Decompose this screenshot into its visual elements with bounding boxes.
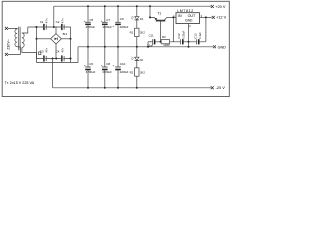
svg-text:2200uF: 2200uF xyxy=(120,25,129,29)
svg-text:C3: C3 xyxy=(40,49,44,53)
svg-text:2: 2 xyxy=(189,24,191,28)
wire AC top (snubber row 1) xyxy=(28,26,71,28)
wire mains top to primary xyxy=(8,27,17,30)
wire bridge left xyxy=(37,38,51,40)
wire riser to -rail xyxy=(52,59,54,88)
node dot AC2 xyxy=(70,38,72,40)
capacitor C7 branch xyxy=(104,6,106,47)
wire drop to regulator row xyxy=(150,6,154,17)
capacitor C3 xyxy=(43,55,45,61)
capacitor C8 branch xyxy=(104,47,106,88)
svg-text:T1: T1 xyxy=(157,11,161,15)
text labels xyxy=(5,4,227,90)
transformer TR1 secondary winding xyxy=(22,33,24,47)
wire drop IN to bypass row xyxy=(172,17,174,41)
svg-text:2K2: 2K2 xyxy=(140,31,145,35)
svg-text:R1: R1 xyxy=(130,31,134,35)
svg-text:C1: C1 xyxy=(40,20,44,24)
svg-text:IN: IN xyxy=(178,14,182,18)
svg-text:-20 V: -20 V xyxy=(216,85,226,90)
svg-text:4700uF: 4700uF xyxy=(86,70,96,74)
center tap square xyxy=(39,52,41,55)
capacitor C9 branch xyxy=(117,6,119,47)
svg-text:+: + xyxy=(101,19,103,23)
terminal X2 +20V xyxy=(211,5,214,8)
svg-text:4700uF: 4700uF xyxy=(102,25,112,29)
svg-text:+: + xyxy=(84,19,86,23)
wire AC bottom (snubber row 2) xyxy=(36,58,70,60)
border frame xyxy=(2,1,229,96)
svg-text:C13: C13 xyxy=(194,33,198,39)
wire bridge right xyxy=(61,38,70,40)
svg-text:R2: R2 xyxy=(130,70,134,74)
wire mains bottom to primary xyxy=(8,47,21,55)
svg-text:R3: R3 xyxy=(162,35,166,39)
node dot base xyxy=(160,41,162,43)
node dot + riser xyxy=(53,26,55,28)
svg-text:+12 V: +12 V xyxy=(216,15,227,20)
capacitor C1 xyxy=(43,24,45,30)
capacitor C6 branch xyxy=(87,47,89,88)
svg-text:2K2: 2K2 xyxy=(140,70,145,74)
terminal X1b mains bottom xyxy=(5,53,8,56)
svg-text:230V~: 230V~ xyxy=(7,39,11,50)
wire T1 to IC xyxy=(167,16,176,18)
svg-text:C5: C5 xyxy=(89,18,93,22)
capacitor C13 xyxy=(196,39,198,44)
svg-text:100R: 100R xyxy=(163,43,169,47)
svg-text:GND: GND xyxy=(218,46,227,50)
node dot regulator drop xyxy=(149,16,151,18)
transistor T1 xyxy=(154,17,167,20)
node dot - riser xyxy=(52,58,54,60)
svg-text:C12: C12 xyxy=(177,33,181,39)
svg-text:4700uF: 4700uF xyxy=(86,25,96,29)
svg-text:0.33uF: 0.33uF xyxy=(182,30,186,38)
terminal X3 +12V xyxy=(212,16,215,19)
capacitor C10 branch xyxy=(117,47,119,88)
svg-text:10uF: 10uF xyxy=(147,43,153,47)
svg-text:C9: C9 xyxy=(120,17,124,21)
svg-text:47n: 47n xyxy=(60,18,64,23)
capacitor C4 xyxy=(61,55,63,61)
resistor R2 xyxy=(135,68,139,76)
svg-text:C6: C6 xyxy=(89,62,93,66)
svg-text:C2: C2 xyxy=(56,20,60,24)
rail +20V xyxy=(54,5,211,7)
svg-text:47n: 47n xyxy=(45,18,49,23)
wire bridge top stub xyxy=(55,27,57,34)
svg-text:4700uF: 4700uF xyxy=(102,70,112,74)
svg-text:+: + xyxy=(112,24,114,28)
IC U1 LM7812 box xyxy=(176,13,200,24)
LED D1 xyxy=(136,6,138,47)
resistor R1 xyxy=(135,28,139,36)
rail -20V xyxy=(53,87,211,89)
node dots +rail xyxy=(87,5,151,7)
wire center link xyxy=(37,27,79,62)
node dot AC2/row2 xyxy=(70,58,72,60)
svg-text:D1: D1 xyxy=(140,17,144,21)
svg-text:Tr. 2x15 V 225 VA: Tr. 2x15 V 225 VA xyxy=(5,81,35,85)
svg-text:C7: C7 xyxy=(106,18,110,22)
svg-text:2200uF: 2200uF xyxy=(120,70,129,74)
svg-text:C10: C10 xyxy=(120,62,126,66)
wire secondary top lead xyxy=(22,27,28,33)
wire secondary bottom lead jog xyxy=(22,48,37,59)
node dots -rail xyxy=(87,87,138,89)
LED D2 xyxy=(136,47,138,88)
svg-text:+: + xyxy=(113,63,115,67)
wire OUT xyxy=(200,16,212,18)
wire riser C13 to OUT xyxy=(205,17,207,41)
wire AC2 vertical xyxy=(70,27,72,62)
rail GND xyxy=(78,46,213,48)
capacitor C5 branch xyxy=(87,6,89,47)
node dots GND rail xyxy=(87,46,190,48)
svg-text:+20 V: +20 V xyxy=(215,4,226,9)
svg-text:LM7812: LM7812 xyxy=(177,9,194,13)
node dot AC1 tap xyxy=(36,26,38,28)
svg-text:47n: 47n xyxy=(60,47,64,52)
transformer TR1 core xyxy=(19,27,20,50)
wire bypass row to GND rail xyxy=(147,42,149,47)
bridge rectifier Br1 diamond xyxy=(51,34,62,44)
capacitor C2 xyxy=(61,24,63,30)
svg-text:C8: C8 xyxy=(106,62,110,66)
svg-text:C4: C4 xyxy=(56,49,60,53)
svg-text:+: + xyxy=(84,64,86,68)
capacitor C12 xyxy=(180,39,182,44)
node dot IN xyxy=(172,16,174,18)
terminal X4 GND xyxy=(213,45,216,48)
svg-text:+: + xyxy=(101,64,103,68)
svg-text:GND: GND xyxy=(185,18,193,22)
svg-text:D2: D2 xyxy=(140,58,144,62)
transformer TR1 primary winding xyxy=(15,29,17,47)
svg-text:0.1uF: 0.1uF xyxy=(198,32,202,39)
pin GND drop xyxy=(188,24,190,47)
svg-text:Br1: Br1 xyxy=(63,32,68,36)
wire bypass row xyxy=(148,41,206,43)
node dot bridge minus stub xyxy=(55,58,57,60)
resistor R3 xyxy=(161,40,169,44)
svg-text:47n: 47n xyxy=(45,47,49,52)
terminal X1a mains top xyxy=(5,27,8,30)
wire riser to +rail xyxy=(53,6,55,27)
bridge internal diode xyxy=(55,38,58,40)
svg-text:C11: C11 xyxy=(149,33,154,37)
terminal X5 -20V xyxy=(211,86,214,89)
wire bridge bottom stub xyxy=(55,44,57,59)
node dot AC1/bridge-left xyxy=(36,38,38,40)
capacitor C11 xyxy=(151,39,153,44)
